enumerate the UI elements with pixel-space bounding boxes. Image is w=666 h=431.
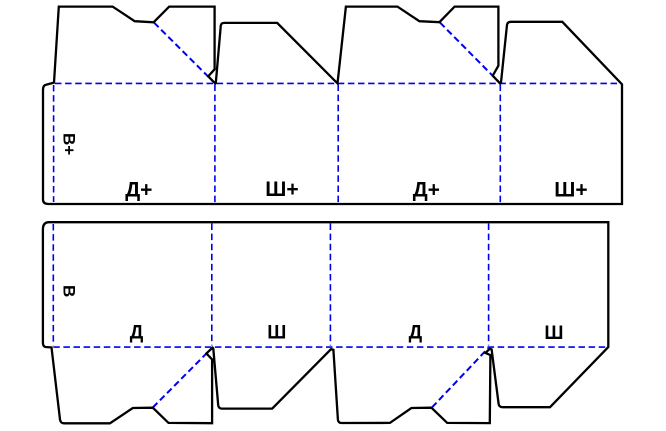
svg-text:В+: В+ [60, 133, 79, 155]
svg-text:Ш+: Ш+ [554, 178, 587, 201]
svg-text:Ш+: Ш+ [265, 178, 298, 201]
svg-text:Д+: Д+ [125, 178, 152, 201]
svg-text:Д+: Д+ [413, 178, 440, 201]
svg-text:В: В [60, 285, 79, 297]
svg-text:Ш: Ш [267, 322, 286, 343]
svg-text:Д: Д [409, 323, 423, 344]
svg-text:Д: Д [130, 323, 144, 344]
svg-text:Ш: Ш [544, 323, 563, 344]
